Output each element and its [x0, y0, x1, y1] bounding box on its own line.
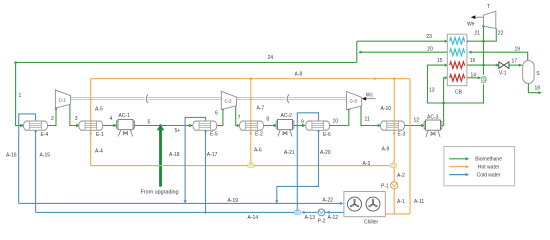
- pump P-1: [391, 182, 398, 189]
- svg-text:A-8: A-8: [295, 72, 303, 78]
- work output arrow We: [471, 15, 484, 19]
- label stream 21: [475, 31, 481, 37]
- svg-text:A-18: A-18: [169, 152, 180, 158]
- label AC-2: [281, 113, 293, 119]
- label A-13: [305, 215, 316, 221]
- wire stream 21: [467, 26, 484, 41]
- label stream 24: [268, 55, 274, 61]
- label A-18: [169, 152, 180, 158]
- wire stream 13: [441, 78, 447, 126]
- svg-text:8: 8: [266, 117, 269, 123]
- svg-text:CB: CB: [455, 90, 463, 96]
- wire stream 22: [484, 28, 497, 75]
- wire stream 19: [469, 52, 528, 60]
- turbine T: [484, 11, 496, 28]
- label P-1: [381, 183, 389, 189]
- hot water junction dots and arrows: [89, 77, 396, 134]
- utility pass E-1: [90, 121, 92, 129]
- svg-text:13: 13: [429, 88, 435, 94]
- label We: [467, 21, 475, 27]
- label turbine T: [487, 4, 490, 10]
- svg-text:14: 14: [471, 73, 477, 79]
- label A-6: [254, 148, 262, 154]
- heat exchanger E-1: [79, 121, 103, 130]
- heat exchanger E-3: [381, 121, 405, 130]
- svg-text:A-20: A-20: [320, 150, 331, 156]
- svg-text:11: 11: [365, 117, 370, 123]
- svg-text:22: 22: [498, 31, 504, 37]
- chiller fan 1: [348, 197, 362, 211]
- svg-text:A-16: A-16: [6, 153, 17, 159]
- svg-text:Hot water: Hot water: [478, 165, 500, 171]
- wire mixer return run: [444, 84, 484, 103]
- label stream 17: [512, 59, 518, 65]
- label C-2: [225, 99, 233, 104]
- label A-4: [95, 149, 103, 155]
- utility pass E-2: [250, 121, 252, 129]
- wire stream 8: [263, 125, 276, 127]
- label A-10: [381, 106, 392, 112]
- junction dots green: [14, 25, 485, 127]
- svg-text:E-2: E-2: [255, 132, 263, 138]
- hot water tee at A-6: [248, 163, 254, 168]
- label A-19: [228, 198, 239, 204]
- label A-8: [295, 72, 303, 78]
- svg-text:A-5: A-5: [95, 107, 103, 113]
- svg-text:3: 3: [75, 116, 78, 122]
- wire stream 14: [467, 77, 480, 79]
- air cooler AC-2: [276, 120, 294, 137]
- mixer at stream 14: [482, 76, 487, 82]
- label stream 20: [427, 46, 433, 52]
- label V-1: [499, 71, 507, 77]
- air cooler AC-1: [117, 120, 135, 137]
- wire cold water A-20 return: [277, 130, 319, 201]
- wire stream 1: [16, 63, 23, 126]
- svg-text:16: 16: [470, 58, 476, 64]
- wire cold water A-16: [19, 114, 36, 203]
- drive shaft C-1 C-2 C-3: [71, 98, 347, 100]
- wire stream 2: [47, 109, 56, 126]
- wire hot water A-8: [91, 78, 410, 80]
- CB cold coil row 2: [450, 49, 465, 56]
- wire hot water A-11: [409, 79, 411, 214]
- label A-16: [6, 153, 17, 159]
- separator S: [523, 61, 534, 84]
- label stream 18: [535, 86, 541, 92]
- utility pass E-3: [393, 121, 395, 129]
- label E-4: [41, 132, 49, 138]
- CB cold coil row 1: [450, 38, 465, 45]
- wire cold water A-14: [36, 211, 295, 213]
- svg-text:23: 23: [426, 34, 432, 40]
- svg-text:1: 1: [19, 93, 22, 99]
- wire hot water A-10 A-9 A-2: [393, 79, 395, 182]
- label stream 13: [429, 88, 435, 94]
- label stream 5: [148, 120, 151, 126]
- legend biomethane: [449, 157, 502, 163]
- wire stream 11: [361, 105, 380, 125]
- label P-2: [318, 219, 326, 225]
- label stream 22: [498, 31, 504, 37]
- label AC-1: [119, 113, 131, 119]
- legend cold water: [449, 173, 501, 179]
- wire hot water A-1: [385, 189, 410, 214]
- node 20/23 riser: [356, 41, 358, 62]
- label A-14: [248, 215, 259, 221]
- svg-text:E-5: E-5: [210, 132, 218, 138]
- label From upgrading: [141, 189, 179, 195]
- wire stream 15: [428, 65, 447, 103]
- svg-text:2: 2: [51, 116, 54, 122]
- svg-text:AC-3: AC-3: [427, 115, 439, 121]
- wire cold water A-19 A-22: [19, 202, 343, 204]
- legend box: [444, 147, 515, 186]
- label stream 23: [426, 34, 432, 40]
- svg-text:A-22: A-22: [323, 198, 334, 204]
- label stream 6: [215, 111, 218, 117]
- svg-text:From upgrading: From upgrading: [141, 189, 179, 195]
- svg-text:12: 12: [414, 118, 420, 124]
- feed arrow From upgrading: [157, 125, 165, 187]
- wire hot water return header: [91, 165, 391, 167]
- label A-5: [95, 107, 103, 113]
- svg-text:A-12: A-12: [328, 215, 339, 221]
- svg-text:A-7: A-7: [257, 106, 265, 112]
- svg-text:C-1: C-1: [59, 97, 67, 102]
- svg-text:7: 7: [238, 115, 241, 121]
- chiller unit: [344, 192, 385, 217]
- svg-text:A-15: A-15: [40, 153, 51, 159]
- compressor C-1: [55, 90, 70, 108]
- CB hot coil row 2: [450, 75, 465, 82]
- wire hot water A-5 A-4: [90, 79, 92, 166]
- wire stream 20: [359, 51, 447, 53]
- label S: [536, 71, 540, 77]
- label A-3: [363, 161, 371, 167]
- label C-1: [59, 97, 67, 102]
- label Wc: [366, 92, 374, 98]
- wire stream 24: [16, 62, 357, 64]
- svg-text:E-3: E-3: [398, 132, 406, 138]
- svg-text:9: 9: [301, 120, 304, 126]
- wire stream 5: [134, 125, 192, 127]
- heat exchanger E-6: [306, 121, 330, 130]
- label stream 19: [515, 47, 521, 53]
- label C-3: [350, 99, 358, 104]
- label stream 5+: [175, 128, 181, 134]
- svg-text:T: T: [487, 4, 490, 10]
- svg-text:4: 4: [110, 116, 113, 122]
- wire cold water A-13: [302, 211, 318, 213]
- svg-text:C-3: C-3: [350, 99, 358, 104]
- label E-3: [398, 132, 406, 138]
- label A-12: [328, 215, 339, 221]
- label E-1: [96, 132, 104, 138]
- wire cold water A-17: [205, 130, 207, 212]
- boiler block CB: [447, 34, 467, 85]
- label A-21: [284, 150, 295, 156]
- wire stream 16: [467, 64, 499, 66]
- green arrowheads: [20, 40, 542, 128]
- svg-text:A-21: A-21: [284, 150, 295, 156]
- svg-text:A-17: A-17: [207, 152, 218, 158]
- wire stream 23: [357, 40, 447, 42]
- wire hot water A-7 A-6: [250, 79, 252, 163]
- label stream 12: [414, 118, 420, 124]
- heat exchanger E-4: [24, 121, 48, 130]
- svg-text:19: 19: [515, 47, 521, 53]
- compressor C-3: [347, 92, 362, 110]
- wire stream 4: [103, 125, 116, 127]
- chiller fan 2: [366, 197, 380, 211]
- label A-20: [320, 150, 331, 156]
- wire stream 9: [294, 125, 305, 127]
- label stream 10: [333, 119, 339, 125]
- svg-text:V-1: V-1: [499, 71, 507, 77]
- label stream 11: [365, 117, 370, 123]
- label stream 3: [75, 116, 78, 122]
- wire stream 7: [236, 105, 240, 125]
- svg-text:A-14: A-14: [248, 215, 259, 221]
- svg-text:S: S: [536, 71, 540, 77]
- svg-text:15: 15: [437, 58, 443, 64]
- wire cold water A-12: [325, 211, 344, 213]
- label stream 15: [437, 58, 443, 64]
- wire stream 18: [528, 84, 540, 93]
- svg-text:A-19: A-19: [228, 198, 239, 204]
- svg-text:18: 18: [535, 86, 541, 92]
- label stream 7: [238, 115, 241, 121]
- air cooler AC-3: [424, 120, 442, 137]
- wire cold water A-21 riser: [297, 113, 318, 209]
- label A-22: [323, 198, 334, 204]
- label stream 2: [51, 116, 54, 122]
- svg-text:Biomethane: Biomethane: [475, 157, 502, 163]
- svg-text:Cold water: Cold water: [477, 173, 501, 179]
- label stream 9: [301, 120, 304, 126]
- svg-text:A-10: A-10: [381, 106, 392, 112]
- svg-text:A-4: A-4: [95, 149, 103, 155]
- label stream 1: [19, 93, 22, 99]
- label E-2: [255, 132, 263, 138]
- label A-17: [207, 152, 218, 158]
- work input arrow Wc: [362, 97, 376, 101]
- svg-text:20: 20: [427, 46, 433, 52]
- wire stream 12: [404, 125, 424, 127]
- svg-text:AC-1: AC-1: [119, 113, 131, 119]
- wire cold water A-15: [35, 130, 37, 212]
- legend hot water: [449, 165, 499, 171]
- svg-text:P-1: P-1: [381, 183, 389, 189]
- label A-7: [257, 106, 265, 112]
- compressor C-2: [221, 91, 236, 109]
- label Chiller: [364, 220, 379, 226]
- svg-text:A-13: A-13: [305, 215, 316, 221]
- svg-text:21: 21: [475, 31, 481, 37]
- svg-text:A-9: A-9: [382, 147, 390, 153]
- svg-text:5+: 5+: [175, 128, 181, 134]
- label stream 4: [110, 116, 113, 122]
- svg-text:P-2: P-2: [318, 219, 326, 225]
- svg-text:A-6: A-6: [254, 148, 262, 154]
- CB hot coil row 1: [450, 62, 465, 69]
- svg-text:AC-2: AC-2: [281, 113, 293, 119]
- hot water tee at A-3: [390, 163, 396, 168]
- label AC-3: [427, 115, 439, 121]
- label stream 8: [266, 117, 269, 123]
- svg-text:5: 5: [148, 120, 151, 126]
- wire stream 17: [509, 64, 522, 66]
- svg-text:24: 24: [268, 55, 274, 61]
- svg-text:E-6: E-6: [323, 132, 331, 138]
- cold water arrows and dots: [34, 130, 343, 214]
- label E-5: [210, 132, 218, 138]
- svg-text:Wc: Wc: [366, 92, 374, 98]
- heat exchanger E-5: [193, 121, 217, 130]
- svg-text:E-1: E-1: [96, 132, 104, 138]
- svg-text:10: 10: [333, 119, 339, 125]
- label stream 14: [471, 73, 477, 79]
- valve V-1: [499, 62, 509, 68]
- svg-text:A-3: A-3: [363, 161, 371, 167]
- label A-9: [382, 147, 390, 153]
- wire stream 6: [217, 109, 223, 125]
- svg-text:A-11: A-11: [414, 199, 424, 205]
- label A-15: [40, 153, 51, 159]
- wire cold water E-5 loop: [185, 117, 205, 201]
- svg-text:We: We: [467, 21, 475, 27]
- pump P-2: [318, 209, 325, 216]
- wire stream 10: [330, 109, 349, 125]
- label stream 16: [470, 58, 476, 64]
- svg-text:Chiller: Chiller: [364, 220, 379, 226]
- svg-text:6: 6: [215, 111, 218, 117]
- label E-6: [323, 132, 331, 138]
- label A-2: [397, 173, 405, 179]
- svg-text:A-2: A-2: [397, 173, 405, 179]
- svg-text:17: 17: [512, 59, 518, 65]
- cold water tee at A-13: [294, 210, 300, 215]
- label A-1: [397, 199, 405, 205]
- svg-text:C-2: C-2: [225, 99, 233, 104]
- heat exchanger E-2: [240, 121, 264, 130]
- svg-text:A-1: A-1: [397, 199, 405, 205]
- shaft break marks: [145, 95, 289, 104]
- wire stream 3: [70, 105, 78, 126]
- label A-11: [414, 199, 424, 205]
- label CB: [455, 90, 463, 96]
- svg-text:E-4: E-4: [41, 132, 49, 138]
